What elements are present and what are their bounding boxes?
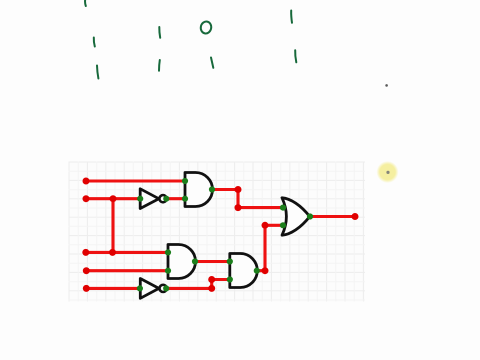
pen tick T8 xyxy=(295,50,296,62)
pin AND1 in1 xyxy=(182,178,188,184)
pen tick T5 xyxy=(158,60,161,71)
wire AND2 out to AND3 xyxy=(195,260,230,263)
stray dot xyxy=(385,84,388,87)
pin NOT2 out xyxy=(163,285,169,291)
cursor dot xyxy=(386,171,389,174)
schematic grid background xyxy=(69,162,366,302)
junction row B xyxy=(110,195,117,202)
output terminal xyxy=(352,213,359,220)
terminal E xyxy=(83,285,90,292)
pin OR out xyxy=(307,213,313,219)
wire row D xyxy=(86,269,168,272)
pin AND2 out xyxy=(192,258,198,264)
wire row B left xyxy=(86,197,140,200)
pen tick T6 xyxy=(211,58,213,68)
pin AND2 in2 xyxy=(165,268,171,274)
pen tick T3 xyxy=(97,66,98,79)
and-gate U1 xyxy=(185,173,213,207)
and-gate U3 xyxy=(168,245,196,279)
wire row A xyxy=(86,179,185,182)
pin OR in2 xyxy=(280,222,286,228)
pin AND3 in1 xyxy=(227,258,233,264)
pin AND1 in2 xyxy=(182,196,188,202)
pin NOT1 out xyxy=(163,196,169,202)
wire NOT1 out to AND1 xyxy=(166,197,185,200)
terminal B xyxy=(83,195,90,202)
terminal C xyxy=(82,249,89,256)
wire E jog to AND3 in2 xyxy=(212,280,230,289)
inverter U2 xyxy=(140,189,159,209)
wire OR output xyxy=(310,215,355,218)
or-gate U6 xyxy=(282,198,310,235)
pen tick T2 xyxy=(94,38,95,47)
terminal D xyxy=(83,267,90,274)
corner E jog bottom xyxy=(208,285,215,292)
terminal A xyxy=(83,178,90,185)
wire AND1 out xyxy=(212,190,283,208)
pin AND3 in2 xyxy=(227,276,233,282)
corner AND1 out top xyxy=(235,186,242,193)
corner OR in2 bottom xyxy=(262,267,269,274)
junction row C xyxy=(109,249,116,256)
pen circle O xyxy=(200,21,213,35)
pen tick T7 xyxy=(290,11,293,23)
pin OR in1 xyxy=(280,205,286,211)
pin NOT1 in xyxy=(137,196,143,202)
and-gate U4 xyxy=(230,254,257,288)
wire row C xyxy=(86,251,168,254)
wire OR in2 feed xyxy=(257,225,283,270)
pen tick T4 xyxy=(158,27,161,38)
pin AND1 out xyxy=(209,186,215,192)
cursor highlight (yellow) xyxy=(377,161,399,183)
corner E jog top xyxy=(208,276,215,283)
wire NOT2 out xyxy=(166,287,212,290)
pin AND2 in1 xyxy=(165,249,171,255)
pin AND3 out xyxy=(254,268,260,274)
inverter U5 xyxy=(140,279,159,299)
corner AND1 out bottom xyxy=(235,204,242,211)
wire vertical B-C xyxy=(111,199,114,253)
corner OR in2 top xyxy=(262,222,269,229)
pen tick T1 xyxy=(84,0,87,6)
pin NOT2 in xyxy=(137,285,143,291)
wire row E left xyxy=(86,287,140,290)
